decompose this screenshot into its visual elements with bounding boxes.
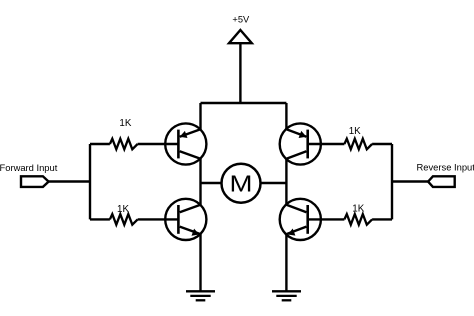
svg-text:1K: 1K <box>119 118 131 129</box>
svg-text:1K: 1K <box>117 204 129 215</box>
svg-text:Forward Input: Forward Input <box>0 162 58 173</box>
svg-text:+5V: +5V <box>232 15 250 25</box>
svg-text:1K: 1K <box>352 204 364 215</box>
svg-text:1K: 1K <box>349 126 361 137</box>
svg-text:Reverse Input: Reverse Input <box>417 162 474 173</box>
svg-text:M: M <box>230 171 253 197</box>
